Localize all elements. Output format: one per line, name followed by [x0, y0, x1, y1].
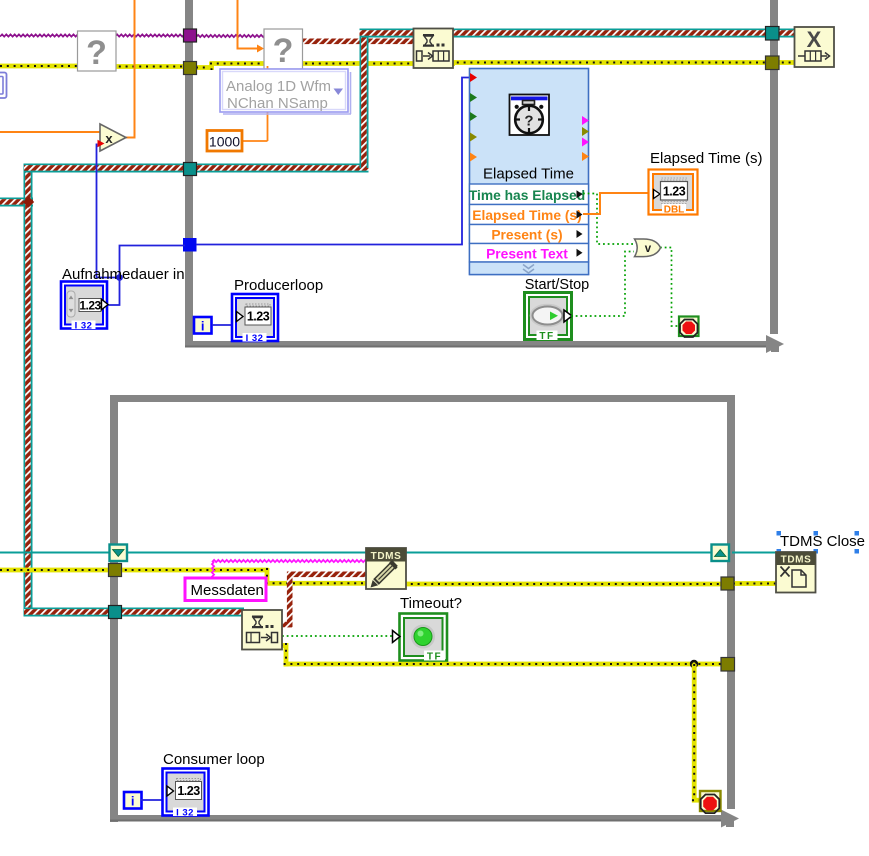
while loop border (producer) bottom edge: [185, 341, 766, 348]
label: TDMS Close (selected): [780, 533, 865, 550]
wire: error TDMS Write to right tunnel: [404, 582, 729, 587]
svg-text:Elapsed Time (s): Elapsed Time (s): [650, 150, 763, 167]
wire: error from VI ?1 to producer tunnel: [112, 64, 190, 69]
shift register right (TDMS refnum) on consumer border: [712, 545, 730, 562]
wire: orange multiply output going up off-screen: [125, 0, 135, 138]
constant: Messdaten string: [185, 578, 266, 601]
wire: queue refnum vertical up to Enqueue: [360, 29, 369, 169]
svg-text:1.23: 1.23: [177, 784, 200, 798]
indicator: Elapsed Time (s) DBL: [649, 170, 698, 216]
wire: queue refnum inside producer loop horizontal: [196, 164, 369, 173]
while loop border (producer) left edge: [185, 0, 193, 348]
tunnel: error (olive) on producer left border: [184, 62, 197, 75]
tunnel: error (olive) bottom on consumer right border: [721, 658, 735, 672]
svg-text:x: x: [105, 131, 113, 146]
wire: blue from multiply input down to junction: [97, 144, 120, 278]
wire: queue refnum vertical main run (left side): [24, 164, 33, 617]
wire: green dotted Time has Elapsed to OR gate: [583, 194, 634, 245]
label: Start/Stop: [525, 277, 589, 293]
OR gate: [635, 239, 661, 257]
svg-text:NChan NSamp: NChan NSamp: [227, 95, 328, 112]
svg-text:Elapsed Time (s): Elapsed Time (s): [472, 208, 581, 223]
wire: error out to Release Queue: [775, 60, 797, 65]
label: Elapsed Time (s): [650, 150, 763, 167]
wire: error Dequeue out to bottom right: [281, 643, 730, 667]
wire: green dotted OR output to loop condition: [660, 248, 678, 327]
tunnel: error (olive) on consumer left border: [109, 564, 122, 577]
svg-text:Messdaten: Messdaten: [191, 582, 264, 599]
wire: TDMS refnum out to TDMS Close: [732, 552, 778, 554]
wire: error out to TDMS Close: [733, 581, 778, 586]
VI ?1 (missing icon DAQmx VI): [78, 31, 117, 72]
svg-text:TF: TF: [539, 331, 554, 342]
svg-text:Consumer loop: Consumer loop: [163, 751, 265, 768]
constant: 1000: [207, 131, 242, 152]
tunnel: queue refnum (teal) on producer left border: [184, 163, 197, 176]
consumer loop condition terminal (stop): [700, 791, 721, 813]
wire: queue refnum stub from left edge: [0, 198, 33, 207]
svg-text:I 32: I 32: [176, 808, 194, 819]
ring constant: Analog 1D Wfm NChan NSamp: [220, 69, 351, 114]
tunnel: error (olive) on producer right border: [766, 56, 780, 70]
indicator: Timeout? LED: [393, 614, 448, 663]
tunnel: error (olive) on consumer right border: [721, 577, 734, 590]
wire: green dotted Start/Stop to OR gate: [571, 252, 634, 317]
while loop border (consumer) top edge: [110, 395, 735, 402]
tunnel: queue refnum (teal) on producer right border: [766, 27, 780, 41]
producer loop iteration terminal (i): [194, 317, 212, 334]
svg-text:Start/Stop: Start/Stop: [525, 277, 589, 293]
shift register left (TDMS refnum) on consumer border: [110, 545, 128, 562]
wire: blue inside loop to Elapsed Time target input: [196, 78, 470, 245]
svg-text:1.23: 1.23: [663, 185, 686, 199]
svg-text:I 32: I 32: [75, 321, 93, 332]
wire: magenta string Messdaten to TDMS Write group input: [212, 560, 367, 578]
svg-text:?: ?: [86, 34, 107, 72]
wire: DAQmx task (purple wavy) from left edge to VI ?1: [0, 34, 78, 36]
VI: Dequeue Element: [242, 610, 282, 650]
svg-text:i: i: [201, 319, 205, 334]
VI: TDMS Write: [366, 548, 406, 589]
while loop border (consumer) bottom-right arrow: [721, 810, 739, 828]
wire: waveform element from Dequeue up to TDMS Write: [281, 572, 368, 628]
wire: blue i to Producerloop indicator: [212, 324, 232, 326]
selection handles around TDMS Close label: [777, 531, 860, 554]
tunnel: numeric (blue) on producer left border: [184, 239, 197, 252]
control: Aufnahmedauer in (I32): [61, 282, 108, 332]
wire: TDMS refnum TDMS Write to right shift register: [405, 552, 713, 554]
tunnel: queue refnum (teal) on consumer left border: [109, 606, 122, 619]
wire: waveform array from VI ?2 to Enqueue element input: [301, 39, 416, 45]
while loop border (producer) bottom-right arrow: [766, 335, 784, 353]
svg-text:Analog 1D Wfm: Analog 1D Wfm: [226, 78, 331, 95]
wire: blue from Aufnahmedauer control up to tunnel: [106, 246, 185, 306]
wire: orange Elapsed Time (s) to indicator: [583, 193, 648, 214]
while loop border (consumer) right edge: [727, 395, 735, 809]
control: Start/Stop boolean: [525, 293, 573, 343]
producer loop condition terminal (stop): [679, 317, 699, 338]
svg-text:TDMS: TDMS: [371, 551, 402, 562]
VI ?2 (missing icon DAQmx Read VI): [264, 29, 303, 70]
node: blue wire junction dot: [116, 274, 123, 281]
svg-text:Timeout?: Timeout?: [400, 595, 462, 612]
wire: DAQmx task (purple wavy) from VI ?1 to tunnel: [115, 34, 185, 36]
label: Consumer loop: [163, 751, 265, 768]
indicator: Producerloop (I32): [232, 294, 278, 344]
svg-text:Producerloop: Producerloop: [234, 277, 323, 294]
consumer loop iteration terminal (i): [124, 792, 142, 809]
wire: green dotted Dequeue timed-out to Timeout LED: [282, 635, 392, 637]
svg-text:?: ?: [273, 32, 294, 70]
clipped control fragment at left edge: [0, 73, 7, 99]
wire: orange behind ring constant from VI ?2 down to 1000: [267, 66, 269, 141]
wire: DAQmx task (purple wavy) tunnel to VI ?2: [196, 35, 265, 37]
wire: orange from top into VI ?2 sample-clock input: [238, 0, 265, 53]
svg-text:Elapsed Time: Elapsed Time: [483, 166, 574, 183]
wire: queue refnum top run through Enqueue to right tunnel: [360, 29, 773, 38]
svg-text:?: ?: [524, 113, 533, 130]
wire: orange multiply input from left edge: [0, 131, 100, 133]
svg-text:Present Text: Present Text: [486, 246, 568, 261]
svg-text:v: v: [645, 243, 652, 255]
wire: queue refnum out to Release Queue: [775, 29, 797, 38]
svg-text:TF: TF: [427, 652, 442, 663]
label: Timeout?: [400, 595, 462, 612]
while loop border (producer) right edge: [770, 0, 778, 334]
node: queue wire junction dot: [23, 196, 34, 207]
multiply node: [100, 124, 126, 151]
indicator: Consumer loop (I32): [163, 769, 209, 819]
wire: queue refnum bottom run into consumer loop: [24, 608, 244, 617]
svg-text:TDMS: TDMS: [781, 555, 812, 566]
wire: error from Enqueue to right tunnel: [450, 60, 772, 65]
wire: error left edge into consumer loop: [0, 568, 118, 573]
express VI: Elapsed Time: [469, 69, 589, 275]
svg-text:1000: 1000: [209, 134, 240, 150]
while loop border (consumer) left edge: [110, 395, 118, 822]
coercion arrow (red) on multiply input: [98, 140, 105, 147]
wire: orange from 1000 constant to vertical riser: [243, 140, 268, 142]
svg-text:Present (s): Present (s): [491, 228, 562, 243]
wire: TDMS file refnum (teal) left edge to TDMS Write: [0, 552, 367, 554]
wire: error in from left edge to VI ?1: [0, 64, 80, 69]
svg-text:X: X: [807, 27, 822, 52]
label: Aufnahmedauer in: [62, 266, 185, 283]
while loop border (consumer) bottom edge: [110, 815, 722, 822]
svg-text:1.23: 1.23: [79, 299, 101, 313]
VI: Enqueue Element: [414, 29, 454, 69]
VI: Release Queue: [795, 27, 835, 67]
svg-text:TDMS Close: TDMS Close: [780, 533, 865, 550]
node: error junction dot bottom right: [690, 660, 698, 668]
svg-text:DBL: DBL: [664, 205, 685, 216]
wire: error inside consumer to TDMS Write: [118, 568, 368, 586]
svg-text:Time has Elapsed: Time has Elapsed: [469, 188, 585, 203]
svg-text:I 32: I 32: [246, 333, 264, 344]
svg-text:1.23: 1.23: [247, 310, 270, 324]
wire: error down to consumer condition terminal: [692, 664, 700, 803]
wire: error jog inside producer loop: [196, 61, 455, 70]
tunnel: DAQmx task (purple) on producer left border: [184, 29, 197, 42]
label: Producerloop: [234, 277, 323, 294]
VI: TDMS Close: [776, 552, 816, 593]
svg-text:i: i: [131, 794, 135, 809]
wire: blue i to Consumer loop indicator: [141, 799, 162, 801]
wire: queue refnum into producer tunnel: [24, 164, 190, 173]
